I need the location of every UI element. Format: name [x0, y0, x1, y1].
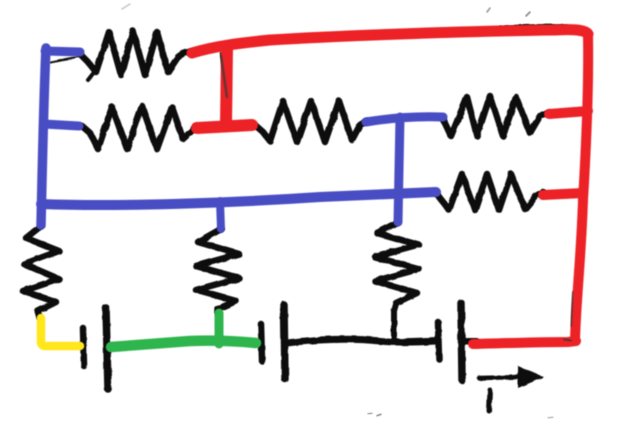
pencil speck top right A [487, 8, 490, 12]
wire red T bottom bar [197, 125, 252, 128]
current arrow shaft [479, 377, 521, 378]
battery V3 negative plate (short) [438, 322, 439, 359]
current arrow head [518, 366, 544, 388]
resistor R5 (row3 right) [437, 174, 543, 210]
resistor R3 (row2 middle) [256, 101, 367, 142]
resistor R1 left tail flick [88, 71, 95, 80]
pencil speck top left [122, 4, 130, 9]
pencil speck bottom middle A [368, 413, 372, 414]
resistor R8 bottom lead [391, 310, 397, 339]
wire black stub (battery V3 to red wire) [462, 338, 476, 345]
wire blue row1 stub [45, 51, 80, 52]
resistor R8 (right vertical) [375, 222, 419, 310]
wire blue row3 horizontal [41, 192, 436, 205]
black marker showing through red T vertical [221, 56, 227, 97]
resistor R6 (left vertical) [23, 226, 59, 318]
wire red right vertical [575, 34, 588, 341]
battery V2 positive plate (long) [284, 305, 285, 379]
wire green horizontal (battery V1 to battery V2) [111, 341, 256, 347]
black under-drawing at red bottom corner [564, 339, 571, 341]
battery V1 negative plate (short) [83, 328, 84, 366]
wire yellow (resistor R6 to battery V1) [41, 318, 80, 346]
battery V2 negative plate (short) [261, 324, 262, 361]
wire blue stub to resistor R7 [220, 201, 221, 229]
wire red T vertical [226, 47, 227, 126]
pencil speck bottom middle B [377, 414, 381, 416]
resistor R4 (row2 right) [443, 96, 549, 136]
wire red top row1 [192, 30, 588, 53]
black underline at blue top-left corner [50, 56, 82, 62]
battery V3 positive plate (long) [461, 303, 462, 380]
resistor R1 (top row) [80, 31, 192, 75]
black diagonal under red T vertical [221, 53, 229, 100]
black fringe above red top wire [500, 25, 567, 27]
wire blue middle vertical [398, 117, 400, 222]
wire blue left vertical [41, 48, 46, 225]
battery V1 positive plate (long) [106, 308, 108, 389]
black under-drawing left edge of red right vertical [571, 292, 573, 326]
wire blue row2 stub [44, 124, 79, 126]
label I (current) [489, 390, 490, 411]
wire red row3 right stub [543, 193, 583, 195]
pencil speck bottom right [548, 417, 553, 418]
pencil speck top right B [526, 12, 530, 16]
wire red bottom horizontal [473, 341, 576, 344]
wire green vertical stub (resistor R7 to green wire) [215, 313, 224, 344]
resistor R2 (row2 left) [82, 106, 196, 149]
wire blue row2 middle segment [366, 117, 443, 122]
resistor R7 (middle vertical) [196, 229, 239, 313]
wire red row2 right stub [549, 111, 588, 114]
wire bottom black (battery V2 to battery V3) [287, 339, 436, 343]
